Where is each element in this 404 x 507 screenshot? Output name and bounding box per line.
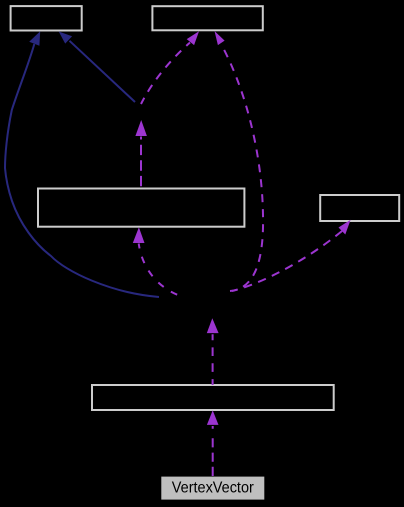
node box top-left (label hidden) [11,6,82,30]
edge: hidden node2 -> top-left box (solid blue straight) [59,32,135,103]
edge: hidden node2 -> top-middle box (dashed purple diagonal) [141,31,199,104]
node box middle-left large (label hidden) [38,189,244,227]
node VertexVector (current node, gray fill) [161,477,264,500]
svg-text:VertexVector: VertexVector [172,479,255,496]
node box middle-right small (label hidden) [320,195,399,221]
edge: hidden center -> top-left box (solid blue long left curve) [5,31,159,297]
node box top-middle (label hidden) [152,6,262,30]
edge: middle-left box -> hidden node2 (dashed purple, vertical) [135,120,147,188]
edge: hidden center -> top-middle box (long dashed purple curve, right side) [215,31,264,291]
node box lower wide (label hidden) [92,385,334,410]
edge: VertexVector -> wide box (dashed purple, vertical) [207,410,219,476]
edge: wide box -> hidden center node (dashed purple, vertical) [207,318,219,385]
edge: hidden center -> middle-left box (dashed purple curve) [133,227,178,295]
edge: hidden center -> right small box (dashed purple) [232,220,351,291]
